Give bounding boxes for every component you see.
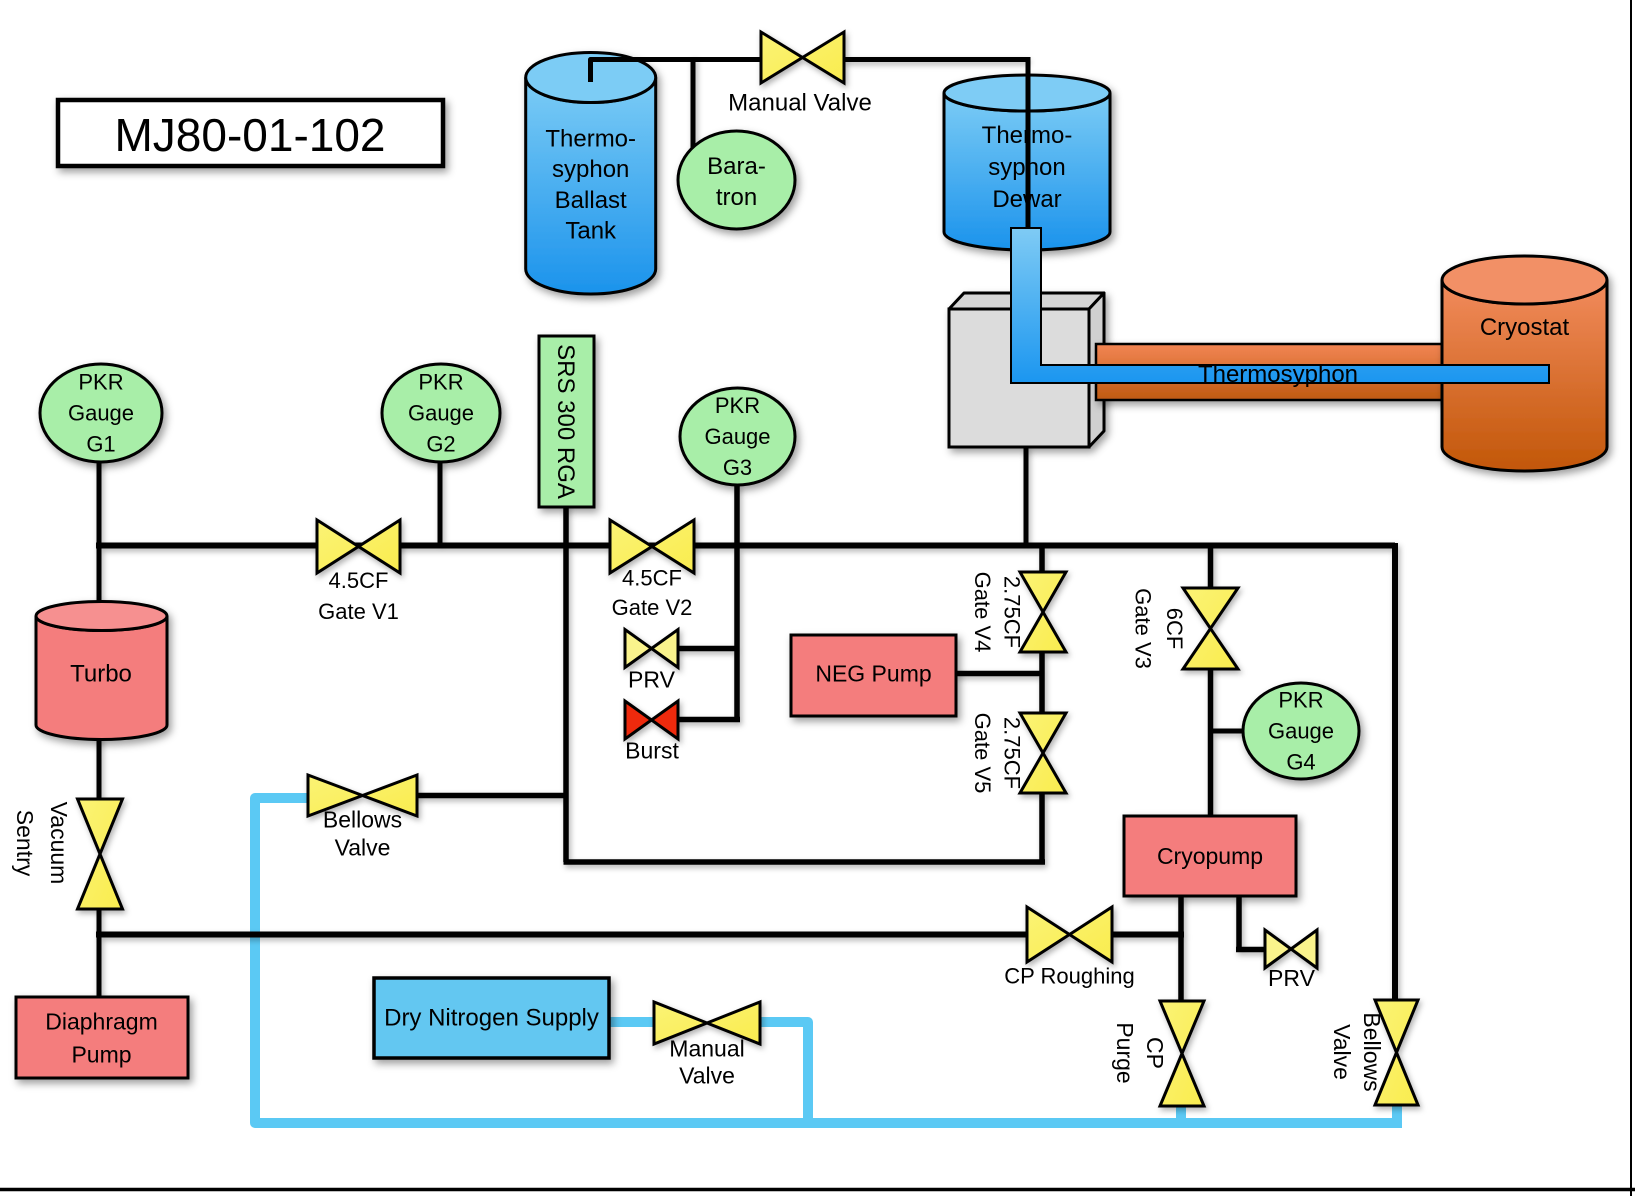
- svg-text:PRV: PRV: [628, 667, 676, 693]
- svg-text:Cryopump: Cryopump: [1157, 843, 1263, 869]
- svg-text:4.5CF: 4.5CF: [329, 568, 389, 593]
- svg-text:PKR: PKR: [418, 370, 463, 395]
- svg-text:Gauge: Gauge: [408, 401, 474, 426]
- svg-text:Gauge: Gauge: [1268, 719, 1334, 744]
- svg-text:Valve: Valve: [679, 1063, 735, 1089]
- svg-text:G2: G2: [426, 432, 455, 457]
- svg-text:MJ80-01-102: MJ80-01-102: [114, 109, 385, 161]
- svg-text:Dry Nitrogen Supply: Dry Nitrogen Supply: [384, 1005, 599, 1032]
- svg-text:PKR: PKR: [715, 393, 760, 418]
- svg-text:Gauge: Gauge: [704, 424, 770, 449]
- svg-text:PRV: PRV: [1268, 965, 1316, 991]
- svg-text:Thermo-: Thermo-: [982, 122, 1073, 149]
- svg-text:Burst: Burst: [625, 738, 679, 764]
- svg-text:CP Roughing: CP Roughing: [1004, 964, 1134, 989]
- svg-text:4.5CF: 4.5CF: [622, 565, 682, 590]
- svg-text:Thermosyphon: Thermosyphon: [1198, 361, 1358, 388]
- svg-text:Bara-: Bara-: [707, 153, 766, 180]
- svg-text:SRS 300 RGA: SRS 300 RGA: [553, 344, 580, 499]
- svg-text:Diaphragm: Diaphragm: [45, 1009, 158, 1035]
- svg-text:Dewar: Dewar: [992, 186, 1061, 213]
- svg-text:tron: tron: [716, 184, 757, 211]
- svg-text:Gate V2: Gate V2: [612, 595, 693, 620]
- svg-text:Pump: Pump: [71, 1042, 131, 1068]
- svg-text:NEG Pump: NEG Pump: [815, 661, 931, 687]
- svg-text:Manual Valve: Manual Valve: [728, 90, 872, 117]
- svg-text:syphon: syphon: [552, 156, 629, 183]
- svg-text:Bellows: Bellows: [323, 807, 402, 833]
- svg-text:Valve: Valve: [335, 835, 391, 861]
- svg-text:PKR: PKR: [1278, 688, 1323, 713]
- svg-text:G3: G3: [723, 455, 752, 480]
- svg-text:Cryostat: Cryostat: [1480, 314, 1570, 341]
- svg-text:Ballast: Ballast: [555, 187, 627, 214]
- svg-text:Thermo-: Thermo-: [545, 125, 636, 152]
- svg-text:Turbo: Turbo: [70, 661, 132, 688]
- svg-text:syphon: syphon: [988, 154, 1065, 181]
- svg-text:Tank: Tank: [565, 218, 617, 245]
- svg-text:G4: G4: [1286, 750, 1315, 775]
- svg-text:G1: G1: [86, 432, 115, 457]
- svg-text:PKR: PKR: [78, 370, 123, 395]
- svg-text:Gate V1: Gate V1: [318, 599, 399, 624]
- svg-text:Gauge: Gauge: [68, 401, 134, 426]
- svg-text:Manual: Manual: [669, 1036, 744, 1062]
